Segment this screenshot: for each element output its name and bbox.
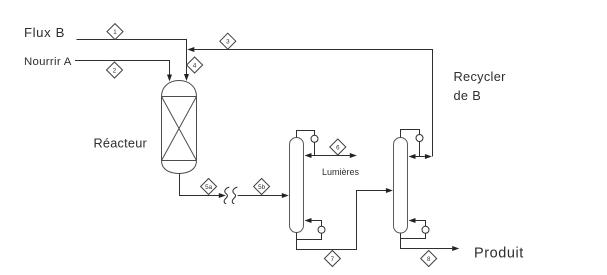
stream tag diamond 8 — [421, 251, 437, 267]
arrowhead reflux into T1 — [305, 153, 312, 158]
svg-text:Recycler: Recycler — [454, 69, 507, 84]
column vessel T2 — [394, 138, 408, 234]
wire stream 5a reactor outlet — [180, 174, 220, 196]
wire stream 6 distillate line — [312, 155, 351, 157]
arrowhead stream 6 Lumières out — [350, 153, 357, 158]
svg-text:5b: 5b — [258, 184, 265, 191]
svg-text:Nourrir A: Nourrir A — [24, 56, 72, 68]
stream tag diamond 7 — [324, 251, 340, 267]
svg-text:5a: 5a — [205, 184, 212, 191]
wire stream 8 T2 bottoms Produit — [401, 233, 453, 249]
svg-text:3: 3 — [226, 39, 230, 46]
svg-text:Flux B: Flux B — [24, 25, 65, 40]
stream tag diamond 1 — [107, 24, 123, 40]
wire stream 7 T1 bottoms to T2 — [297, 191, 387, 250]
wire stream 2 Nourrir A feed — [75, 61, 170, 76]
svg-text:4: 4 — [193, 62, 197, 69]
svg-text:Produit: Produit — [474, 246, 524, 262]
stream tag diamond 3 — [220, 33, 236, 49]
arrowhead stream 7 into column T2 — [386, 188, 393, 193]
column vessel T1 — [290, 138, 304, 233]
arrowhead reflux into T2 — [409, 154, 416, 159]
svg-text:7: 7 — [331, 256, 335, 263]
svg-text:1: 1 — [113, 29, 117, 36]
svg-text:Lumières: Lumières — [322, 167, 360, 177]
condenser drum E1 — [311, 135, 318, 142]
wire T2 distillate line — [416, 156, 425, 158]
stream tag diamond 6 — [330, 139, 346, 155]
arrowhead stream 1 into reactor — [184, 74, 189, 81]
wire reboiler E4 outlet — [401, 233, 426, 238]
stream tag diamond 5b — [254, 179, 270, 195]
arrowhead reboiler return into T2 — [409, 218, 416, 223]
wire condenser E1 outlet — [314, 142, 316, 155]
svg-text:Réacteur: Réacteur — [94, 136, 148, 150]
wire condenser E3 outlet — [419, 142, 421, 157]
condenser drum E3 — [416, 135, 423, 142]
svg-text:6: 6 — [336, 144, 340, 151]
arrowhead distillate into recycle riser — [425, 154, 432, 159]
line break symbol right squiggle — [232, 187, 237, 204]
reboiler drum E4 — [422, 226, 429, 233]
svg-text:8: 8 — [427, 256, 431, 263]
wire T1 overhead vapour line — [297, 131, 315, 138]
stream tag diamond 2 — [107, 62, 123, 78]
wire stream 3 recycle line — [194, 50, 433, 157]
wire stream 5b feed to column T1 — [238, 195, 282, 197]
reboiler drum E2 — [318, 226, 325, 233]
stream tag diamond 5a — [201, 179, 217, 195]
wire stream 1 Flux B feed — [77, 40, 187, 75]
wire T2 overhead vapour line — [401, 130, 420, 138]
arrowhead stream 5a — [219, 193, 226, 198]
arrowhead stream 5b into column T1 — [282, 193, 289, 198]
arrowhead reboiler return into T1 — [305, 218, 312, 223]
svg-text:2: 2 — [113, 67, 117, 74]
wire T2 reboiler return — [416, 221, 426, 227]
wire T1 reboiler return — [312, 221, 322, 227]
line break symbol left squiggle — [224, 187, 229, 204]
arrowhead stream 2 into reactor — [167, 75, 172, 82]
wire reboiler E2 outlet — [297, 233, 322, 239]
svg-text:de B: de B — [454, 88, 482, 103]
arrowhead stream 3 into junction — [187, 47, 194, 52]
reactor vessel R1 — [162, 81, 197, 174]
stream tag diamond 4 — [187, 57, 203, 73]
arrowhead stream 8 Produit — [452, 246, 459, 251]
